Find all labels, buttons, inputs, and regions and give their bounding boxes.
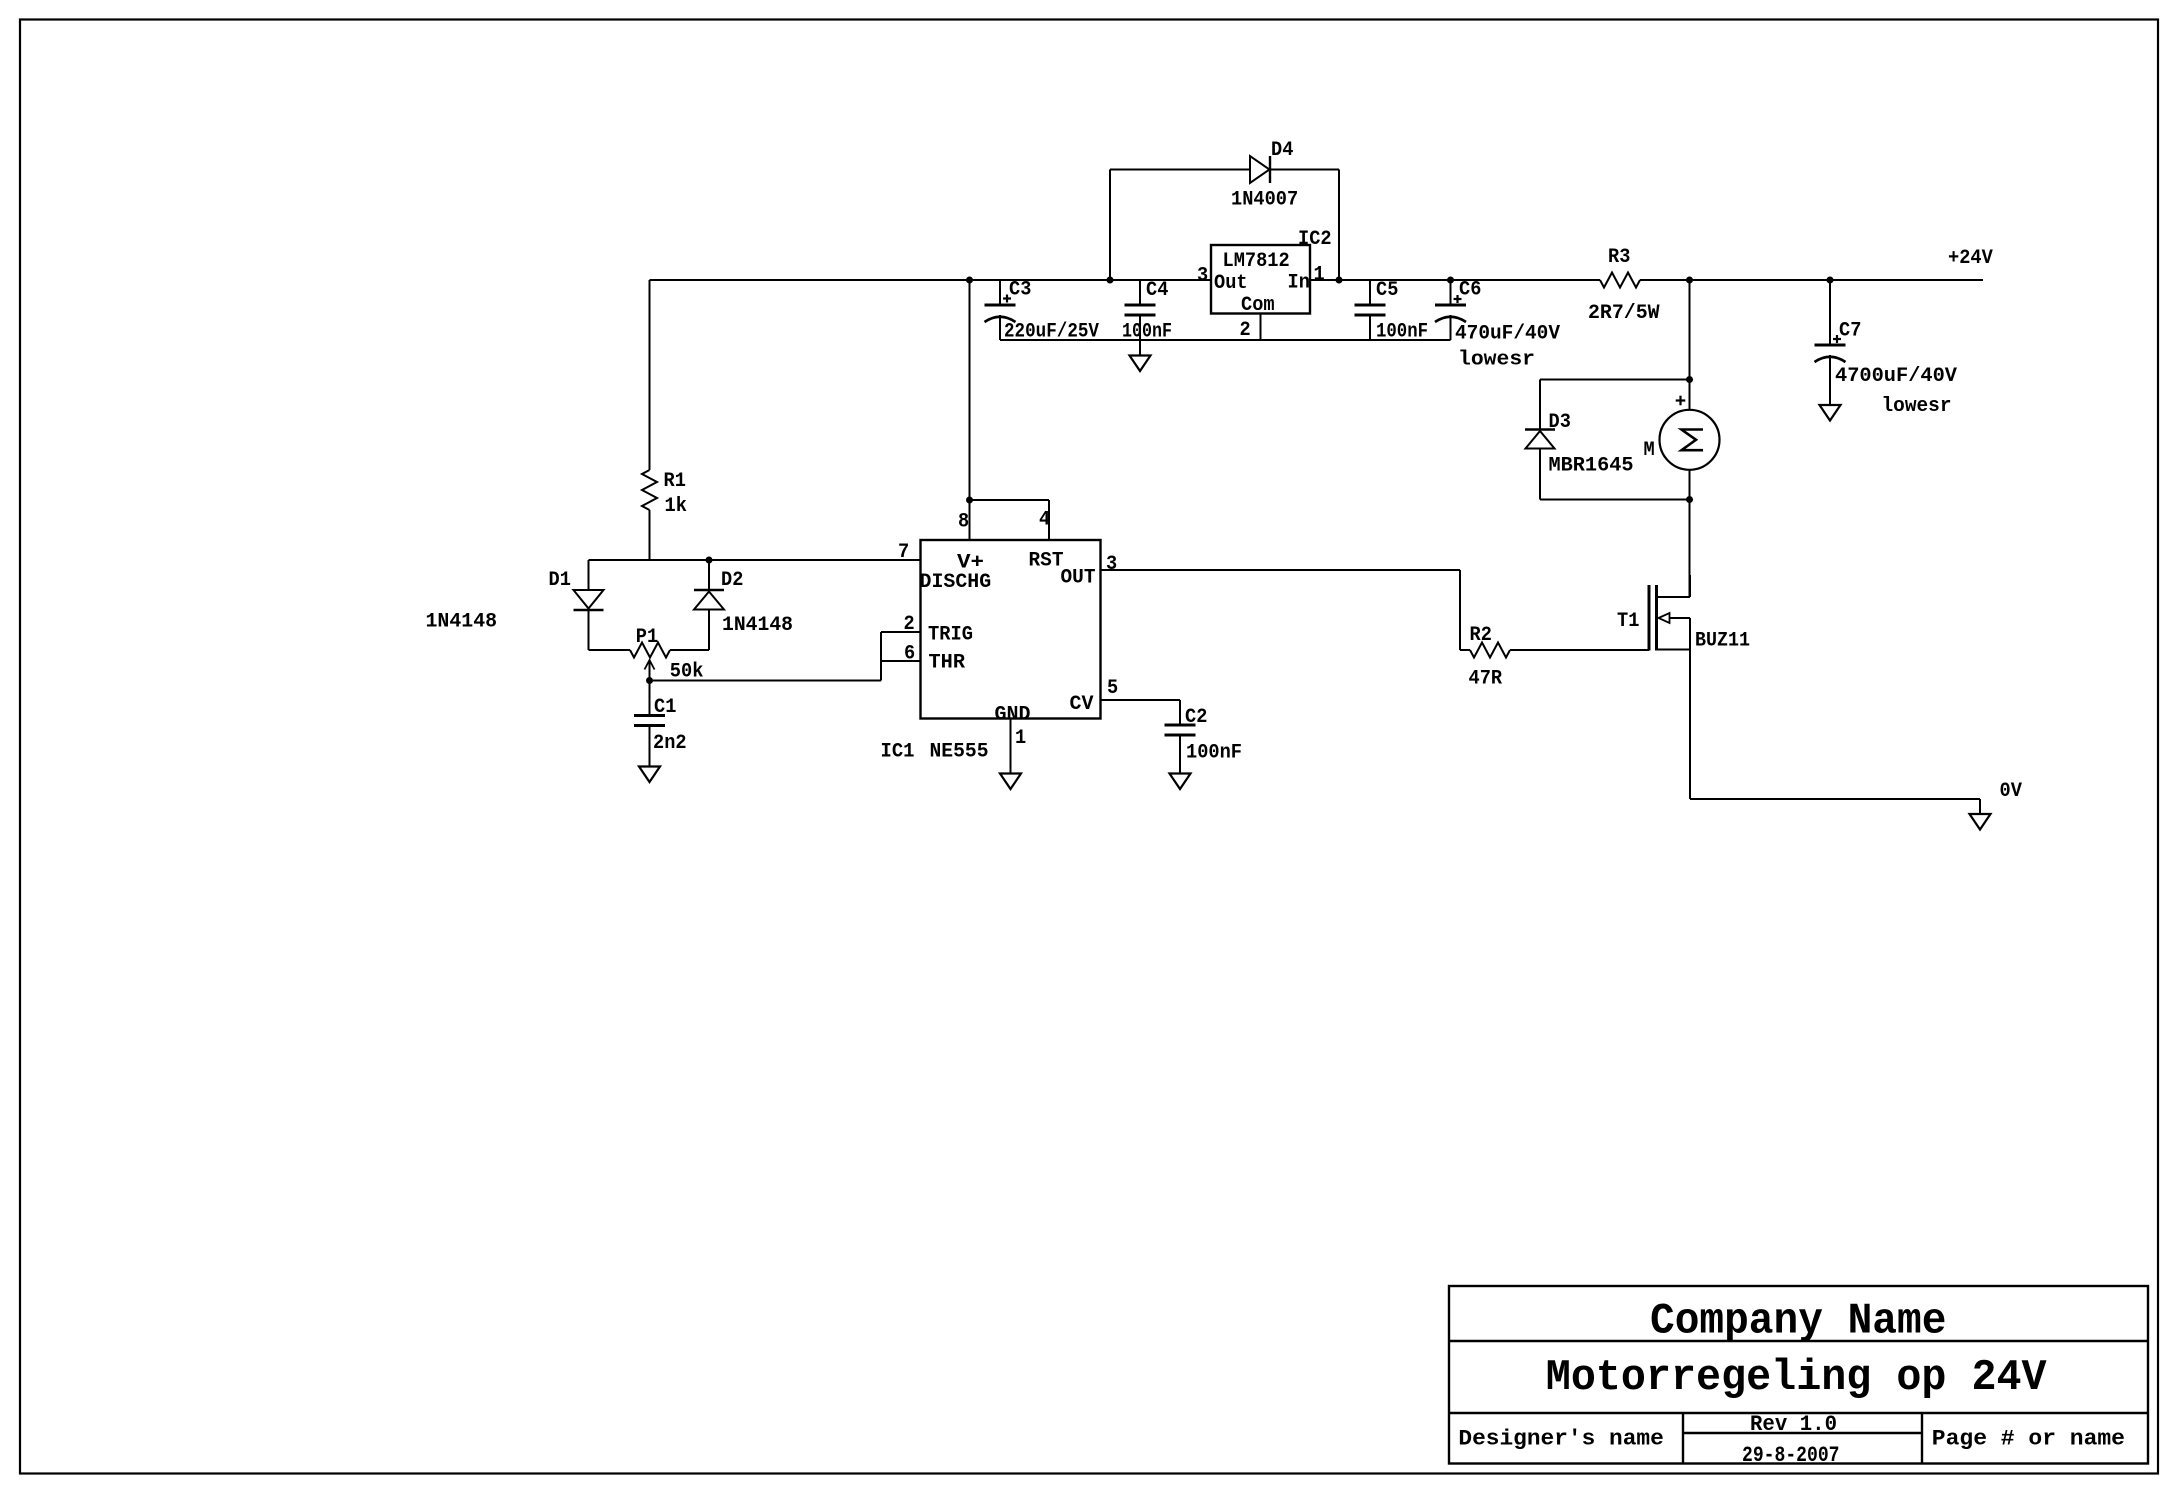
wire C2 bottom lead	[1179, 735, 1181, 774]
capacitor C4	[1125, 305, 1156, 315]
pin name Out	[1214, 272, 1248, 295]
svg-text:LM7812: LM7812	[1223, 250, 1290, 273]
polarity + C7	[1833, 335, 1841, 343]
polarity + C3	[1003, 295, 1011, 303]
wire C7 top lead	[1829, 280, 1831, 345]
wire node D1/D2 to DISCHG pin7	[589, 559, 921, 561]
title block frame	[1449, 1286, 2148, 1464]
svg-text:C2: C2	[1185, 706, 1207, 729]
transistor T1 channel bar	[1655, 585, 1658, 651]
svg-text:7: 7	[898, 541, 909, 564]
wire RST bridge pin4	[970, 500, 1050, 540]
svg-text:+24V: +24V	[1948, 247, 1993, 270]
polarity + motor	[1676, 396, 1686, 406]
svg-text:470uF/40V: 470uF/40V	[1455, 323, 1560, 346]
value 1k	[665, 495, 687, 518]
capacitor C6	[1435, 305, 1466, 322]
label C3	[1009, 279, 1031, 302]
wire D3 top branch	[1540, 380, 1690, 430]
ground symbol 0V	[1970, 814, 1991, 830]
label C1	[654, 696, 676, 719]
svg-text:R1: R1	[664, 470, 686, 493]
ground symbol below C2	[1170, 774, 1191, 790]
wire rail to motor	[1689, 280, 1691, 410]
pin number 2 IC2	[1240, 319, 1251, 342]
label D2	[721, 569, 743, 592]
junction rail/C7	[1827, 277, 1833, 283]
motor M circle	[1660, 410, 1720, 470]
wire V+ branch	[969, 280, 971, 540]
wire TRIG stub pin2	[881, 631, 921, 633]
wire motor to drain	[1689, 470, 1691, 597]
transistor T1 drain stub	[1657, 575, 1691, 597]
svg-text:Company Name: Company Name	[1650, 1296, 1946, 1346]
title text Page # or name	[1932, 1427, 2125, 1452]
diode D1	[574, 590, 604, 610]
svg-text:Motorregeling op 24V: Motorregeling op 24V	[1546, 1353, 2047, 1403]
wire R2 to gate	[1510, 649, 1649, 651]
label IC1	[881, 741, 915, 764]
wire P1 left lead	[589, 649, 631, 651]
svg-text:2: 2	[904, 613, 915, 636]
svg-text:100nF: 100nF	[1376, 321, 1428, 344]
capacitor C5	[1355, 305, 1386, 315]
transistor T1 body arrow	[1659, 613, 1691, 623]
wire D1 cathode lead	[588, 610, 590, 650]
diode D3	[1525, 430, 1555, 449]
pin name OUT	[1061, 567, 1096, 590]
value 50k	[670, 661, 704, 684]
potentiometer P1 wiper arrow	[645, 660, 655, 681]
svg-text:C6: C6	[1459, 279, 1481, 302]
svg-text:D3: D3	[1549, 411, 1571, 434]
svg-text:100nF: 100nF	[1186, 742, 1242, 765]
svg-text:D1: D1	[549, 569, 571, 592]
pin name DISCHG	[920, 571, 992, 594]
pin name In	[1288, 272, 1310, 295]
pin name TRIG	[928, 624, 973, 647]
svg-text:C7: C7	[1839, 320, 1861, 343]
label R3	[1608, 246, 1630, 269]
svg-text:BUZ11: BUZ11	[1695, 630, 1750, 653]
label D3	[1549, 411, 1571, 434]
junction rail/C6	[1448, 277, 1454, 283]
wire OUT pin3 to R2	[1101, 570, 1471, 650]
svg-text:29-8-2007: 29-8-2007	[1742, 1443, 1840, 1468]
svg-text:NE555: NE555	[930, 741, 989, 764]
pin number 4	[1039, 509, 1050, 532]
wire C5 bottom lead	[1369, 315, 1371, 340]
svg-text:3: 3	[1106, 553, 1117, 576]
svg-text:C1: C1	[654, 696, 676, 719]
svg-text:P1: P1	[636, 626, 658, 649]
wire R1 bottom lead	[649, 510, 651, 560]
svg-text:6: 6	[904, 643, 915, 666]
svg-text:47R: 47R	[1469, 668, 1503, 691]
wire D4 anode branch	[1110, 170, 1250, 281]
svg-text:Rev 1.0: Rev 1.0	[1750, 1412, 1837, 1437]
wire 0V ground stub	[1979, 799, 1981, 814]
svg-text:2: 2	[1240, 319, 1251, 342]
svg-text:DISCHG: DISCHG	[920, 571, 992, 594]
ground symbol below C4	[1130, 356, 1151, 372]
motor sigma symbol	[1682, 430, 1704, 451]
value 1N4148 D1	[426, 611, 498, 634]
pin name THR	[929, 652, 966, 675]
svg-text:lowesr: lowesr	[1882, 395, 1952, 418]
node +24V label	[1948, 247, 1993, 270]
value 2R7/5W	[1588, 302, 1660, 325]
svg-text:1N4007: 1N4007	[1231, 189, 1298, 212]
junction motor/D3 top	[1687, 377, 1693, 383]
svg-text:Page # or name: Page # or name	[1932, 1427, 2125, 1452]
potentiometer P1	[630, 643, 670, 658]
label R2	[1470, 624, 1492, 647]
title text Company Name	[1650, 1296, 1946, 1346]
value MBR1645	[1549, 455, 1634, 478]
wire GND pin1 lead	[1010, 719, 1012, 774]
svg-text:Out: Out	[1214, 272, 1248, 295]
pin number 3 IC2	[1197, 265, 1208, 288]
note lowesr C6	[1458, 349, 1535, 372]
svg-text:C4: C4	[1146, 279, 1168, 302]
svg-text:In: In	[1288, 272, 1310, 295]
svg-text:RST: RST	[1029, 550, 1064, 573]
junction V+/RST bridge	[967, 497, 973, 503]
note lowesr C7	[1882, 395, 1952, 418]
svg-text:1N4148: 1N4148	[426, 611, 498, 634]
svg-text:TRIG: TRIG	[928, 624, 973, 647]
value 47R	[1469, 668, 1503, 691]
value 100nF C4	[1122, 321, 1172, 344]
diode D4	[1250, 156, 1270, 183]
wire C1 bottom lead	[649, 726, 651, 767]
svg-text:T1: T1	[1617, 610, 1639, 633]
svg-text:3: 3	[1197, 265, 1208, 288]
junction rail/motor branch	[1687, 277, 1693, 283]
svg-text:MBR1645: MBR1645	[1549, 455, 1634, 478]
svg-text:8: 8	[958, 511, 969, 534]
pin name Com	[1241, 294, 1275, 317]
wire IC2 pin2 to ground bus	[1260, 314, 1262, 341]
wire +24V rail middle segment	[1310, 279, 1600, 281]
wire C6 top lead	[1450, 280, 1452, 305]
node 0V label	[2000, 780, 2022, 803]
label C2	[1185, 706, 1207, 729]
wire C5 top lead	[1369, 280, 1371, 305]
wire R1 top lead	[649, 280, 651, 470]
diode D2	[694, 590, 724, 610]
value 100nF C5	[1376, 321, 1428, 344]
junction wiper/C1/THR	[647, 678, 653, 684]
svg-text:0V: 0V	[2000, 780, 2022, 803]
junction rail/D4-right	[1336, 277, 1342, 283]
svg-text:2n2: 2n2	[653, 732, 687, 755]
label D4	[1271, 139, 1293, 162]
wire D4 cathode branch	[1270, 170, 1339, 281]
wire C6 bottom lead	[1450, 315, 1452, 340]
junction rail/D4-left	[1107, 277, 1113, 283]
label D1	[549, 569, 571, 592]
resistor R1	[642, 470, 657, 510]
svg-text:lowesr: lowesr	[1458, 349, 1535, 372]
timer IC1 box	[921, 540, 1101, 719]
ground symbol below IC1	[1000, 774, 1021, 790]
wire wiper to THR	[650, 632, 882, 681]
svg-text:4700uF/40V: 4700uF/40V	[1835, 365, 1957, 388]
polarity + C6	[1454, 295, 1462, 303]
svg-text:R3: R3	[1608, 246, 1630, 269]
svg-text:OUT: OUT	[1061, 567, 1096, 590]
wire C3 top lead	[999, 280, 1001, 305]
svg-text:100nF: 100nF	[1122, 321, 1172, 344]
svg-text:D4: D4	[1271, 139, 1293, 162]
transistor T1 gate bar	[1648, 585, 1651, 651]
svg-text:C3: C3	[1009, 279, 1031, 302]
value 4700uF/40V	[1835, 365, 1957, 388]
wire C1 top lead	[649, 681, 651, 716]
capacitor C2	[1165, 725, 1196, 735]
capacitor C7	[1815, 345, 1846, 362]
value 1N4007	[1231, 189, 1298, 212]
label LM7812	[1223, 250, 1290, 273]
svg-text:1: 1	[1314, 264, 1325, 287]
title text Rev 1.0	[1750, 1412, 1837, 1437]
pin number 1 IC2	[1314, 264, 1325, 287]
value 100nF C2	[1186, 742, 1242, 765]
svg-text:1k: 1k	[665, 495, 687, 518]
wire source to 0V rail	[1690, 650, 1980, 800]
pin name RST	[1029, 550, 1064, 573]
capacitor C3	[985, 305, 1016, 322]
svg-text:1: 1	[1015, 727, 1026, 750]
svg-text:C5: C5	[1376, 279, 1398, 302]
label R1	[664, 470, 686, 493]
pin name GND	[995, 704, 1031, 727]
svg-text:1N4148: 1N4148	[722, 614, 793, 637]
label C6	[1459, 279, 1481, 302]
label M	[1644, 439, 1655, 462]
pin number 7	[898, 541, 909, 564]
label T1	[1617, 610, 1639, 633]
transistor T1 source stub	[1657, 618, 1691, 650]
wire C4 bottom lead	[1139, 315, 1141, 340]
wire C7 bottom lead	[1829, 355, 1831, 405]
wire D2 cathode lead	[708, 560, 710, 590]
pin number 2 IC1	[904, 613, 915, 636]
wire THR stub pin6	[881, 660, 921, 662]
junction rail/V+ branch	[967, 277, 973, 283]
wire D2 anode lead	[708, 610, 710, 650]
label C5	[1376, 279, 1398, 302]
junction node/D2	[706, 557, 712, 563]
svg-text:GND: GND	[995, 704, 1031, 727]
svg-text:2R7/5W: 2R7/5W	[1588, 302, 1660, 325]
capacitor C1	[634, 716, 665, 726]
ground symbol below C7	[1820, 405, 1841, 421]
resistor R3	[1600, 273, 1640, 288]
svg-text:CV: CV	[1070, 693, 1094, 716]
svg-text:5: 5	[1107, 677, 1118, 700]
pin number 3 IC1	[1106, 553, 1117, 576]
pin name V+	[957, 552, 984, 575]
pin number 5	[1107, 677, 1118, 700]
value 1N4148 D2	[722, 614, 793, 637]
wire C4 ground stub	[1139, 340, 1141, 356]
wire C3 bottom lead	[999, 315, 1001, 340]
label IC2	[1298, 228, 1332, 251]
svg-text:Designer's name: Designer's name	[1458, 1427, 1663, 1452]
label C7	[1839, 320, 1861, 343]
pin number 1 IC1	[1015, 727, 1026, 750]
wire C4 top lead	[1139, 280, 1141, 305]
title text 29-8-2007	[1742, 1443, 1840, 1468]
junction motor/D3 bottom	[1687, 497, 1693, 503]
svg-text:IC2: IC2	[1298, 228, 1332, 251]
wire D1 anode lead	[588, 560, 590, 590]
title text Motorregeling op 24V	[1546, 1353, 2047, 1403]
svg-text:M: M	[1644, 439, 1655, 462]
svg-text:THR: THR	[929, 652, 966, 675]
resistor R2	[1470, 643, 1510, 658]
svg-text:Com: Com	[1241, 294, 1275, 317]
value 470uF/40V	[1455, 323, 1560, 346]
svg-text:D2: D2	[721, 569, 743, 592]
regulator IC2 box	[1211, 245, 1310, 314]
title text Designer's name	[1458, 1427, 1663, 1452]
svg-text:R2: R2	[1470, 624, 1492, 647]
wire P1 right lead	[670, 649, 709, 651]
value 220uF/25V	[1004, 321, 1099, 344]
value 2n2	[653, 732, 687, 755]
wire D3 bottom branch	[1540, 449, 1690, 500]
wire +24V rail left segment	[650, 279, 1212, 281]
ground symbol below C1	[639, 767, 660, 783]
label NE555	[930, 741, 989, 764]
pin number 6	[904, 643, 915, 666]
svg-text:IC1: IC1	[881, 741, 915, 764]
value BUZ11	[1695, 630, 1750, 653]
pin number 8	[958, 511, 969, 534]
wire +24V rail right segment	[1640, 279, 1983, 281]
label P1	[636, 626, 658, 649]
wire capacitor ground bus	[1000, 339, 1451, 341]
label C4	[1146, 279, 1168, 302]
pin name CV	[1070, 693, 1094, 716]
svg-text:4: 4	[1039, 509, 1050, 532]
svg-text:220uF/25V: 220uF/25V	[1004, 321, 1099, 344]
wire CV pin5 to C2	[1101, 700, 1181, 725]
